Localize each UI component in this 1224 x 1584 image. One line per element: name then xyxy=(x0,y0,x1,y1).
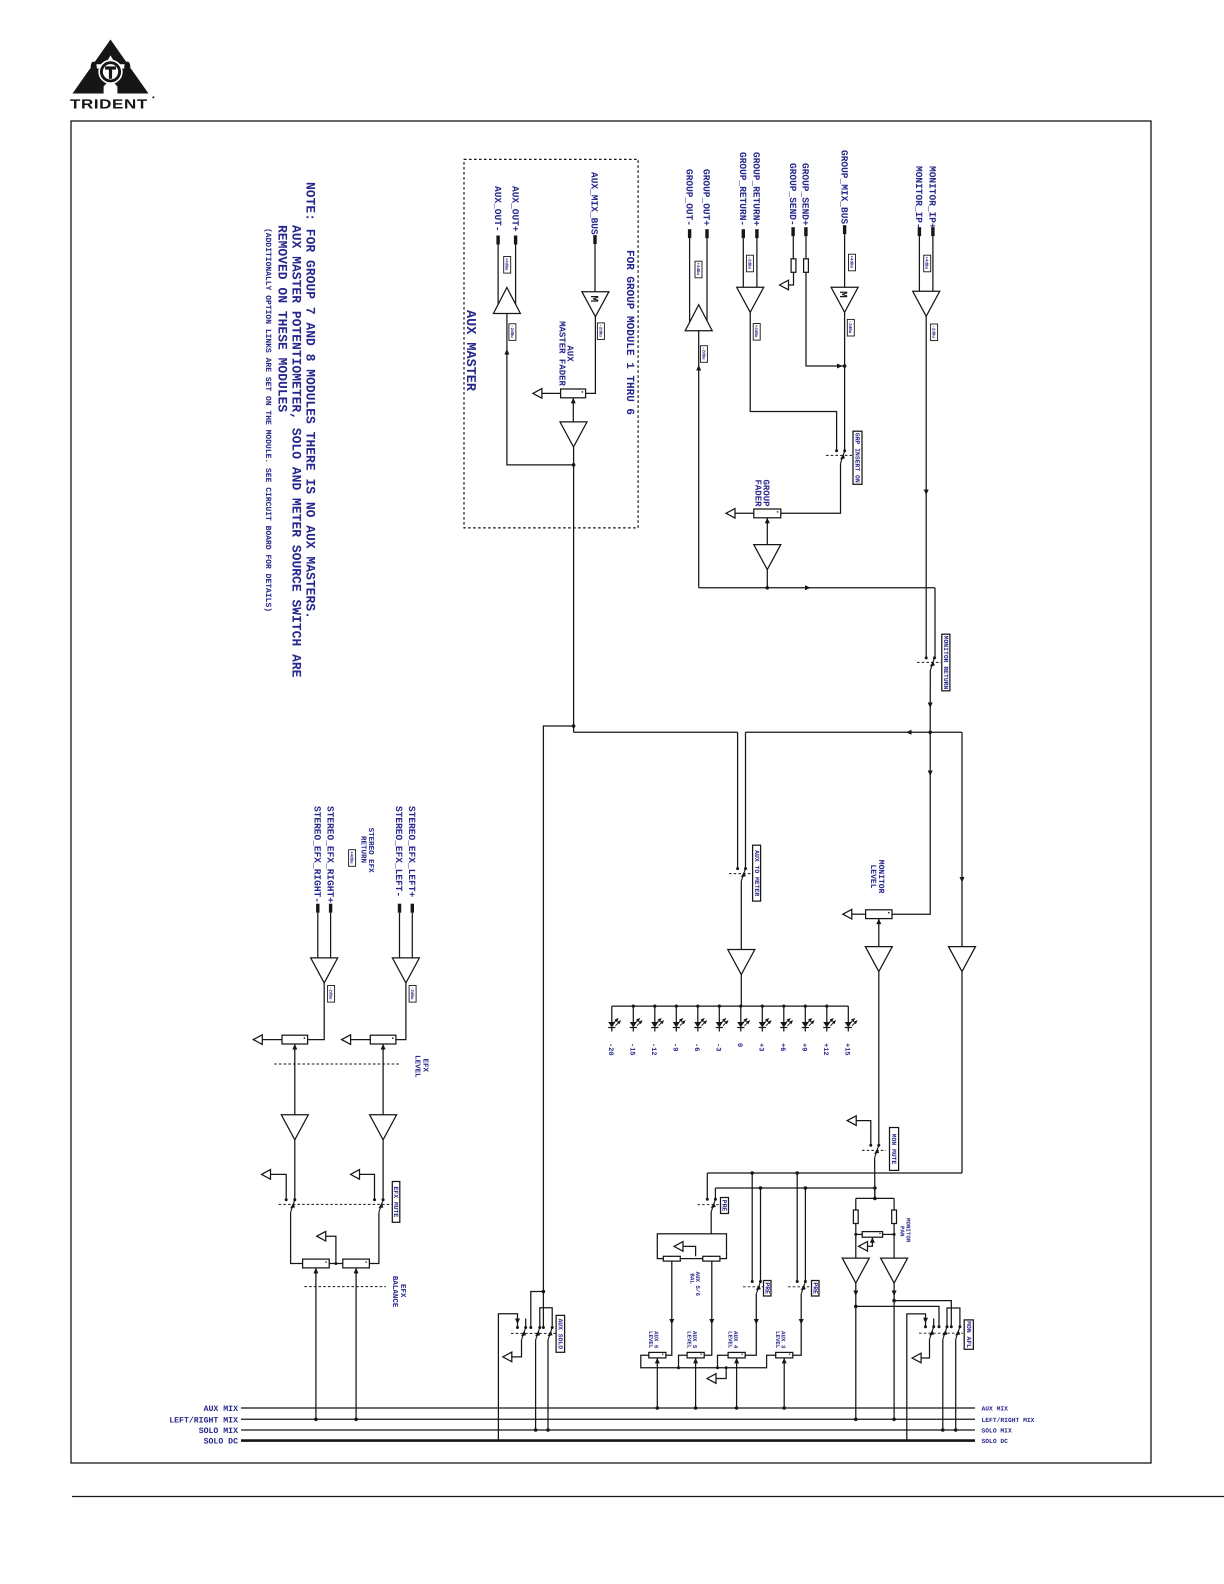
svg-text:RETURN: RETURN xyxy=(359,836,367,863)
svg-text:AUX_OUT-: AUX_OUT- xyxy=(492,186,503,232)
op-amp efx right buffer xyxy=(281,1115,308,1140)
wire left balance wiper to lr mix xyxy=(355,1272,357,1419)
potentiometer AUX 6 LEVEL xyxy=(649,1352,666,1358)
svg-text:GROUP_MIX_BUS: GROUP_MIX_BUS xyxy=(838,150,849,224)
wire driver input from fader amp xyxy=(507,314,574,465)
svg-text:-12: -12 xyxy=(649,1043,657,1056)
wire solo switch bracket xyxy=(540,1308,552,1328)
svg-text:BAL: BAL xyxy=(688,1273,695,1284)
wire aux-meter rail left segment xyxy=(574,731,738,733)
svg-text:LEFT/RIGHT MIX: LEFT/RIGHT MIX xyxy=(169,1416,238,1425)
wire pre-feed rail upper xyxy=(707,1172,962,1174)
wire pan right branch to afl switch xyxy=(894,1301,951,1327)
wire right mute to balance pot xyxy=(291,1212,303,1263)
svg-text:+6: +6 xyxy=(778,1043,786,1051)
wire meter amp to led rail xyxy=(740,975,742,1007)
wire left mute to balance pot xyxy=(369,1212,379,1263)
level label box on AUX_OUT wire xyxy=(504,257,511,274)
ground arrow efx mute right xyxy=(262,1170,271,1180)
wire AUX_OUT- to driver xyxy=(497,245,499,307)
op-amp efx left buffer xyxy=(370,1115,397,1140)
label box AUX SOLO xyxy=(556,1315,565,1352)
level label box on GROUP_OUT wire xyxy=(695,261,702,278)
bus LEFT/RIGHT MIX xyxy=(241,1418,975,1420)
LED +6 xyxy=(782,1005,785,1008)
Trident wordmark xyxy=(70,97,148,112)
LED 0 xyxy=(739,1005,742,1008)
svg-text:-20: -20 xyxy=(606,1043,614,1056)
ground arrow aux solo xyxy=(503,1352,512,1362)
svg-text:MONITOR RETURN: MONITOR RETURN xyxy=(942,636,949,690)
op-amp meter driver xyxy=(728,950,755,975)
svg-text:M: M xyxy=(587,296,599,303)
ground arrow aux level rail xyxy=(716,1368,726,1379)
svg-text:EFX: EFX xyxy=(421,1059,429,1073)
switch PRE aux3 xyxy=(788,1286,810,1288)
wire mon mute to pan xyxy=(874,1158,876,1199)
svg-text:AUX MIX: AUX MIX xyxy=(982,1406,1009,1413)
svg-text:STEREO_EFX_LEFT-: STEREO_EFX_LEFT- xyxy=(393,806,404,897)
label box MONITOR RETURN xyxy=(942,634,950,691)
svg-text:-15: -15 xyxy=(628,1043,636,1056)
op-amp stereo efx right receiver xyxy=(311,958,338,983)
svg-text:GROUP_OUT-: GROUP_OUT- xyxy=(683,169,694,226)
LED -6 xyxy=(696,1005,699,1008)
svg-text:MONITOR_IP-: MONITOR_IP- xyxy=(913,166,924,229)
label box PRE aux3 xyxy=(812,1281,820,1297)
svg-text:PRE: PRE xyxy=(721,1200,728,1212)
LED +9 xyxy=(804,1005,807,1008)
label box EFX MUTE xyxy=(392,1182,400,1223)
wire MONITOR_IP+ to amp xyxy=(932,236,934,291)
label box PRE aux4 xyxy=(764,1281,772,1297)
svg-text:+9: +9 xyxy=(800,1043,808,1051)
svg-text:AUX_OUT+: AUX_OUT+ xyxy=(509,186,520,232)
wire pan wiper to ground arrow xyxy=(868,1241,873,1246)
svg-text:STEREO_EFX_RIGHT+: STEREO_EFX_RIGHT+ xyxy=(324,806,335,903)
LED -9 xyxy=(675,1005,678,1008)
potentiometer AUX MASTER FADER xyxy=(533,389,542,399)
wire monitor amp to mute switch xyxy=(878,972,880,1146)
svg-text:-3: -3 xyxy=(714,1043,722,1051)
wire right buffer to mute switch xyxy=(294,1140,296,1200)
svg-text:EFX: EFX xyxy=(398,1284,406,1298)
LED -12 xyxy=(653,1005,656,1008)
wire right amp to efx level pot xyxy=(308,983,325,1040)
bus AUX MIX xyxy=(241,1407,975,1409)
svg-text:AUX MASTER POTENTIOMETER, SOLO: AUX MASTER POTENTIOMETER, SOLO AND METER… xyxy=(289,225,304,678)
node AUX solo feed branch xyxy=(572,724,576,728)
gang link efx balance xyxy=(304,1286,386,1288)
wire pan input bar xyxy=(874,1188,876,1198)
op-amp AUX master output xyxy=(560,422,587,447)
wire aux master feed to solo switch xyxy=(542,1290,546,1294)
balance pot AUX 5/6 BAL xyxy=(657,1234,726,1259)
wire GROUP_OUT driver input xyxy=(698,331,700,588)
bottom horizontal rule xyxy=(72,1496,1224,1498)
wire AUX_MIX_BUS to mix amp xyxy=(594,244,596,292)
wire STEREO_EFX_LEFT- to amp xyxy=(399,913,401,958)
svg-text:GROUP_RETURN-: GROUP_RETURN- xyxy=(737,152,748,226)
level label box on GROUP_RETURN xyxy=(746,255,753,272)
AUX MASTER module dashed boundary xyxy=(464,159,638,528)
svg-text:LEVEL: LEVEL xyxy=(685,1331,692,1349)
ground arrow mon afl xyxy=(912,1353,921,1363)
wiper of AUX MASTER FADER xyxy=(572,398,574,405)
node group insert junction xyxy=(843,364,847,368)
op-amp U-aux mix (M) xyxy=(582,292,609,317)
wire afl switch bracket xyxy=(947,1308,960,1327)
Trident logo mark xyxy=(73,40,149,94)
wire led meter rail xyxy=(612,1005,849,1007)
svg-text:LEFT/RIGHT MIX: LEFT/RIGHT MIX xyxy=(982,1417,1035,1424)
level label box on GROUP_MIX_BUS xyxy=(849,254,856,271)
svg-text:AUX_MIX_BUS: AUX_MIX_BUS xyxy=(589,172,600,235)
wire monitor ip amp to return switch xyxy=(925,316,927,658)
level label box on GROUP_OUT driver input xyxy=(700,346,707,363)
wire pan left branch to afl switch xyxy=(856,1306,939,1326)
wire STEREO_EFX_RIGHT- to amp xyxy=(317,913,319,958)
op-amp monitor level buffer xyxy=(865,947,892,972)
switch PRE aux4 xyxy=(743,1286,765,1288)
svg-text:(ADDITIONALLY OPTION LINKS ARE: (ADDITIONALLY OPTION LINKS ARE SET ON TH… xyxy=(263,228,272,612)
svg-text:EFX MUTE: EFX MUTE xyxy=(392,1187,399,1218)
level label box right amp out xyxy=(328,986,335,1003)
svg-text:AUX SOLO: AUX SOLO xyxy=(557,1318,564,1349)
level label box stereo efx xyxy=(349,850,356,867)
potentiometer EFX BALANCE right xyxy=(303,1259,330,1268)
ground arrow MON MUTE nc xyxy=(847,1116,856,1126)
wire group mix amp to insert switch xyxy=(844,312,846,451)
ground arrow efx mute left xyxy=(351,1170,360,1180)
wire STEREO_EFX_RIGHT+ to amp xyxy=(330,913,332,958)
op-amp AUX_OUT driver xyxy=(493,288,520,314)
op-amp GROUP_OUT driver xyxy=(685,305,712,331)
resistor pan left xyxy=(855,1198,857,1209)
wire pan left to lr mix xyxy=(855,1283,857,1419)
wire balance center tap to ground arrow xyxy=(329,1263,343,1265)
wire aux solo pole 3 to solo mix xyxy=(547,1340,549,1430)
wire AUX 5 wiper to aux mix bus xyxy=(695,1362,697,1408)
svg-text:AUX TO METER: AUX TO METER xyxy=(753,850,760,896)
label box MON MUTE xyxy=(890,1128,899,1171)
svg-text:PRE: PRE xyxy=(812,1282,819,1294)
wire aux solo pole 2 to solo mix xyxy=(535,1340,537,1430)
wire insert switch to group fader xyxy=(781,463,841,513)
svg-text:M: M xyxy=(836,291,848,298)
wire left level wiper to amp xyxy=(382,1049,384,1115)
wire mix amp to fader xyxy=(586,317,596,394)
svg-text:LEVEL: LEVEL xyxy=(647,1331,654,1349)
svg-text:SOLO MIX: SOLO MIX xyxy=(982,1428,1012,1435)
svg-text:STEREO_EFX_RIGHT-: STEREO_EFX_RIGHT- xyxy=(312,806,323,903)
svg-text:-9: -9 xyxy=(671,1043,679,1051)
level label box on MONITOR_IP xyxy=(924,255,931,272)
level label box below monitor ip amp xyxy=(931,324,938,341)
potentiometer AUX 5 LEVEL xyxy=(687,1352,704,1358)
wire AUX_OUT+ to driver xyxy=(515,245,517,307)
wire solo dc feed bracket afl xyxy=(907,1314,926,1441)
level label box left amp out xyxy=(409,986,416,1003)
switch AUX SOLO xyxy=(511,1332,556,1334)
switch MON AFL xyxy=(919,1332,963,1334)
svg-text:LEVEL: LEVEL xyxy=(413,1055,421,1078)
svg-text:+15: +15 xyxy=(843,1043,851,1056)
bus SOLO DC xyxy=(241,1439,975,1442)
svg-text:GROUP_RETURN+: GROUP_RETURN+ xyxy=(751,152,762,226)
svg-text:GROUP_SEND+: GROUP_SEND+ xyxy=(800,163,811,226)
resistor on GROUP_SEND+ xyxy=(804,259,809,273)
svg-text:0: 0 xyxy=(735,1043,743,1047)
svg-text:MON MUTE: MON MUTE xyxy=(890,1134,897,1165)
svg-text:MON AFL: MON AFL xyxy=(965,1321,972,1348)
LED +12 xyxy=(825,1005,828,1008)
wire solo dc feed bracket xyxy=(498,1314,517,1441)
wire meter switch to meter amp xyxy=(740,881,742,949)
wire monitor rail to pre feed xyxy=(961,732,963,946)
wire monitor return to rail xyxy=(929,670,931,732)
potentiometer AUX 4 LEVEL xyxy=(728,1352,745,1358)
LED +15 xyxy=(847,1006,849,1022)
potentiometer EFX LEVEL right xyxy=(253,1035,262,1045)
drawing border frame xyxy=(71,121,1151,1463)
switch MONITOR RETURN xyxy=(917,661,941,663)
wire GROUP_RETURN+ to amp xyxy=(756,238,758,287)
svg-text:NOTE: FOR GROUP 7 AND 8 MODULE: NOTE: FOR GROUP 7 AND 8 MODULES THERE IS… xyxy=(303,182,318,619)
switch GRP INSERT ON xyxy=(826,454,852,456)
wire afl pole 3 to solo mix xyxy=(955,1339,957,1430)
resistor pan right xyxy=(893,1198,895,1209)
op-amp pre-feed buffer right xyxy=(949,947,976,972)
wire STEREO_EFX_LEFT+ to amp xyxy=(411,913,413,958)
wire GROUP_MIX_BUS to mix amp xyxy=(844,234,846,287)
svg-text:FOR GROUP MODULE 1 THRU 6: FOR GROUP MODULE 1 THRU 6 xyxy=(623,250,635,415)
wire right balance wiper to lr mix xyxy=(315,1272,317,1419)
level label box on driver input xyxy=(509,324,516,341)
wire pan right to lr mix xyxy=(893,1283,895,1419)
svg-text:STEREO_EFX_LEFT+: STEREO_EFX_LEFT+ xyxy=(406,806,417,898)
wire afl pole 2 to solo mix xyxy=(942,1339,944,1430)
wire AUX 3 wiper to aux mix bus xyxy=(783,1362,785,1408)
svg-text:LEVEL: LEVEL xyxy=(726,1331,733,1349)
svg-text:GROUP_OUT+: GROUP_OUT+ xyxy=(701,169,712,226)
wire monitor rail right segment xyxy=(746,731,963,733)
svg-text:SOLO MIX: SOLO MIX xyxy=(199,1427,238,1436)
svg-text:LEVEL: LEVEL xyxy=(868,865,877,889)
LED -20 xyxy=(611,1006,613,1022)
op-amp pan right output xyxy=(881,1258,908,1283)
wire bal wiper right to aux5 pot xyxy=(704,1261,712,1355)
potentiometer MONITOR LEVEL xyxy=(843,909,852,919)
wire post feed to aux3 switch xyxy=(804,1188,806,1282)
svg-text:-6: -6 xyxy=(692,1043,700,1051)
wire aux level ground rail xyxy=(641,1355,776,1368)
level label box below group mix amp xyxy=(847,319,854,336)
wire pre feed to aux4 switch xyxy=(751,1173,753,1282)
potentiometer GROUP FADER xyxy=(726,509,735,519)
ground arrow GROUP_SEND- xyxy=(780,280,789,290)
wire rail to monitor return switch xyxy=(934,588,936,658)
label box PRE aux5/6 xyxy=(721,1198,729,1214)
LED -3 xyxy=(718,1005,721,1008)
svg-text:MASTER FADER: MASTER FADER xyxy=(557,321,567,386)
label box AUX TO METER xyxy=(753,845,761,901)
svg-text:TRIDENT: TRIDENT xyxy=(70,97,148,112)
svg-text:GROUP_SEND-: GROUP_SEND- xyxy=(787,163,798,226)
wire group output rail xyxy=(699,587,935,589)
LED -15 xyxy=(632,1005,635,1008)
wire post feed to aux4 switch xyxy=(760,1188,762,1282)
svg-text:FADER: FADER xyxy=(753,480,763,508)
svg-text:GRP INSERT ON: GRP INSERT ON xyxy=(854,433,861,483)
svg-text:AUX MIX: AUX MIX xyxy=(204,1405,238,1414)
svg-text:MONITOR_IP+: MONITOR_IP+ xyxy=(927,166,938,229)
svg-text:REMOVED ON THESE MODULES: REMOVED ON THESE MODULES xyxy=(275,225,290,412)
stub contact aux solo xyxy=(525,1319,527,1328)
wire bal wiper left to aux6 pot xyxy=(666,1261,672,1355)
label box MON AFL xyxy=(964,1320,973,1349)
wire GROUP_OUT+ to driver xyxy=(706,238,708,322)
wire post-feed rail lower xyxy=(715,1187,875,1189)
wire GROUP_RETURN amp to insert switch xyxy=(750,312,836,451)
op-amp MONITOR_IP receiver xyxy=(913,291,940,316)
potentiometer MONITOR PAN xyxy=(856,1233,862,1235)
wire GROUP_OUT- to driver xyxy=(689,238,691,322)
wire left amp to efx level pot xyxy=(396,983,406,1040)
level label box below mix amp xyxy=(597,323,604,340)
wire right level wiper to amp xyxy=(294,1049,296,1115)
wire MONITOR_IP- to amp xyxy=(918,236,920,291)
stub contact mon afl xyxy=(933,1319,935,1327)
svg-text:SOLO DC: SOLO DC xyxy=(204,1438,238,1447)
wire left buffer to mute switch xyxy=(382,1140,384,1200)
wire monitor branch to level pot xyxy=(892,732,930,914)
bus SOLO MIX xyxy=(241,1429,975,1431)
svg-text:PRE: PRE xyxy=(764,1282,771,1294)
gang link efx level xyxy=(274,1063,401,1065)
potentiometer EFX LEVEL left xyxy=(342,1035,351,1045)
wire AUX 6 wiper to aux mix bus xyxy=(656,1362,658,1408)
wiper of MONITOR LEVEL xyxy=(878,919,880,926)
level label box below GROUP_RETURN amp xyxy=(753,324,760,341)
wire group fader amp to rail xyxy=(766,570,768,588)
svg-text:PAN: PAN xyxy=(899,1226,906,1237)
resistor on GROUP_SEND- xyxy=(791,259,796,273)
switch AUX TO METER xyxy=(729,873,752,875)
switch PRE aux 5/6 xyxy=(697,1204,721,1206)
wire AUX master amp output junction xyxy=(573,447,575,728)
svg-text:+3: +3 xyxy=(757,1043,765,1051)
switch EFX MUTE xyxy=(279,1203,393,1205)
svg-text:LEVEL: LEVEL xyxy=(774,1331,781,1349)
LED +3 xyxy=(761,1005,764,1008)
svg-text:+12: +12 xyxy=(821,1043,829,1056)
svg-text:AUX MASTER: AUX MASTER xyxy=(462,310,477,392)
op-amp stereo efx left receiver xyxy=(392,958,419,983)
svg-text:SOLO DC: SOLO DC xyxy=(982,1438,1009,1445)
potentiometer EFX BALANCE left xyxy=(343,1259,370,1268)
wiper of GROUP FADER xyxy=(766,518,768,525)
wire AUX 4 wiper to aux mix bus xyxy=(736,1362,738,1408)
op-amp group mix (M) xyxy=(831,287,858,312)
switch MON MUTE xyxy=(862,1149,886,1151)
wire GROUP_RETURN- to amp xyxy=(742,238,744,287)
svg-text:BALANCE: BALANCE xyxy=(390,1276,399,1308)
wire pre feed to aux3 switch xyxy=(796,1173,798,1282)
wire GROUP_SEND+ to insert junction xyxy=(805,236,807,259)
op-amp group fader buffer xyxy=(754,545,781,570)
label box GRP INSERT ON xyxy=(853,431,862,484)
potentiometer AUX 3 LEVEL xyxy=(776,1352,793,1358)
op-amp pan left output xyxy=(842,1258,869,1283)
wire GROUP_SEND- via resistor to ground arrow xyxy=(792,236,794,259)
op-amp GROUP_RETURN receiver xyxy=(737,287,764,312)
